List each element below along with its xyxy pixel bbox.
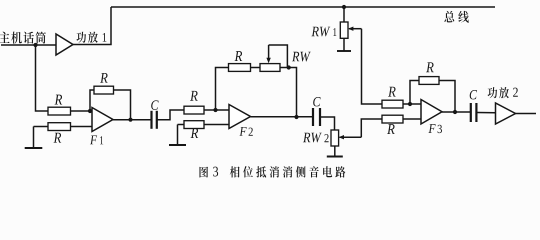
ground (F1 non-inverting) <box>25 127 43 149</box>
label C (F1-F2) <box>151 100 158 109</box>
junction mic node <box>33 43 37 47</box>
potentiometer RW2 body <box>331 130 339 146</box>
amplifier 功放2 <box>496 103 516 124</box>
wire final output <box>516 113 537 115</box>
wire F1 output to C <box>113 119 151 121</box>
resistor R (F2 feedback) <box>229 64 251 72</box>
op-amp F3 <box>421 100 442 125</box>
ground (F2 non-inverting) <box>169 125 186 146</box>
junction F1 output node <box>128 118 132 122</box>
wire feedback R to RW <box>251 67 261 69</box>
wiper arm of RW (arrow onto body, tied to right end) <box>266 45 287 68</box>
potentiometer RW (F2 feedback) <box>260 64 280 72</box>
wire C to amp2 <box>477 112 495 114</box>
label R (F3 input) <box>388 87 396 97</box>
wire R to F2 inverting input <box>204 109 229 111</box>
wire F2 output to C <box>251 116 313 118</box>
resistor R (F3 feedback) <box>419 77 439 85</box>
op-amp F1 <box>92 108 113 132</box>
wire F3 node up to feedback R <box>410 81 419 105</box>
resistor R (F1 non-inverting input) <box>48 123 71 131</box>
wire lower R to F3 non-inverting input <box>403 118 421 120</box>
wire R to F1 inverting input <box>71 110 93 112</box>
label 功放 1 <box>76 32 97 43</box>
wire amp1 output up to bus <box>73 7 111 45</box>
junction F1 inverting node <box>88 109 92 113</box>
wire mic node down to input R of F1 <box>36 45 49 111</box>
label F3 <box>428 124 435 133</box>
wire C to RW2 <box>321 117 335 130</box>
op-amp F2 <box>229 105 251 129</box>
label RW 1 <box>311 27 330 37</box>
label R (F2 input) <box>190 91 198 101</box>
caption 图3 相位抵消消侧音电路 <box>199 167 208 178</box>
wire ground to lower R of F2 <box>178 124 185 126</box>
wiper of RW1 (arrow into body) <box>348 27 362 31</box>
capacitor C (F2-F3 coupling) <box>313 108 320 126</box>
resistor R (F3 inverting input) <box>382 100 403 108</box>
label R (F1 feedback) <box>100 73 108 83</box>
wiper of RW2 (arrow into body) <box>339 135 362 139</box>
wire bus to RW1 <box>343 7 345 22</box>
wire bus line <box>111 6 495 8</box>
label R (F3 feedback) <box>426 62 434 72</box>
label RW (F2 feedback) <box>292 52 311 62</box>
capacitor C (F3 output) <box>471 103 477 122</box>
capacitor C (F1-F2 coupling) <box>152 111 157 129</box>
label F1 <box>90 135 97 144</box>
resistor R (F1 feedback) <box>94 86 114 94</box>
label R (F2 feedback) <box>235 51 243 61</box>
wire F3 output to C <box>442 111 470 113</box>
resistor R (F1 inverting input) <box>48 107 71 115</box>
label bus 总线 <box>444 11 468 23</box>
label 主机话筒 <box>0 32 46 44</box>
label C (F2-F3) <box>313 97 320 106</box>
junction F2 output node <box>294 115 298 119</box>
junction F3 output node <box>453 110 457 114</box>
wire ground branch to lower R of F1 <box>34 126 49 128</box>
wire feedback R to F1 output <box>114 90 131 120</box>
wire R to F3 inverting input <box>403 103 421 105</box>
label R (F1 input) <box>55 95 63 105</box>
junction F2 inverting node <box>213 108 217 112</box>
junction bus to RW1 <box>342 5 346 9</box>
resistor R (F2 non-inverting input) <box>184 121 204 129</box>
label R (F1 lower) <box>54 133 62 143</box>
ground (RW2) <box>327 146 343 157</box>
label C (F3 output) <box>470 90 477 99</box>
potentiometer RW1 body <box>340 22 348 38</box>
amplifier 功放1 <box>56 34 73 55</box>
wire F2 node up to feedback <box>216 68 229 111</box>
junction RW wiper tie <box>287 65 291 69</box>
wire C to input R of F2 <box>157 110 184 120</box>
wire lower R to F1 non-inverting input <box>71 126 93 128</box>
label RW 2 <box>303 133 322 143</box>
ground (RW1) <box>337 38 351 51</box>
junction F3 inverting node <box>408 102 412 106</box>
wire feedback R to F3 output <box>439 81 455 113</box>
resistor R (F3 non-inverting input) <box>382 115 403 123</box>
wire RW2 wiper to lower R of F3 <box>361 119 382 137</box>
label 功放 2 <box>488 87 509 98</box>
wire F1 node up to feedback R <box>90 90 94 111</box>
label R (F2 lower) <box>191 128 199 138</box>
wire mic input <box>1 44 56 46</box>
resistor R (F2 inverting input) <box>184 106 204 114</box>
label R (F3 lower) <box>387 124 395 134</box>
wire RW to F2 output <box>280 68 297 118</box>
wire lower R to F2 non-inverting input <box>204 124 229 126</box>
wire RW1 wiper down to upper R of F3 <box>362 29 383 104</box>
label F2 <box>239 127 246 136</box>
